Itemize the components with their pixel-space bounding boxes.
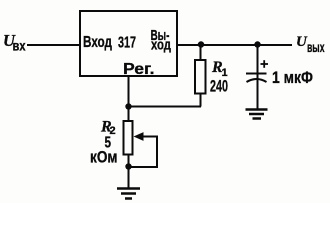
svg-text:кОм: кОм — [90, 149, 118, 167]
svg-text:ход: ход — [151, 38, 171, 54]
svg-text:1 мкФ: 1 мкФ — [272, 68, 313, 87]
svg-text:Вход: Вход — [83, 34, 112, 51]
svg-text:240: 240 — [210, 77, 228, 96]
svg-text:Рег.: Рег. — [123, 61, 155, 78]
svg-text:317: 317 — [118, 35, 136, 52]
svg-text:вх: вх — [13, 39, 26, 54]
svg-text:вых: вых — [307, 39, 325, 55]
